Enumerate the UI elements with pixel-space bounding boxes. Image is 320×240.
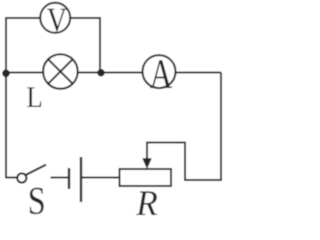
ammeter label A xyxy=(150,60,172,88)
wire: bottom right horizontal xyxy=(184,179,222,181)
rheostat wiper shaft xyxy=(146,142,148,162)
wire: switch fixed contact to battery xyxy=(51,177,69,179)
voltmeter label V xyxy=(47,9,67,32)
lamp L circle xyxy=(43,54,78,89)
junction node left xyxy=(2,70,10,78)
battery positive long plate xyxy=(80,157,82,202)
rheostat R body xyxy=(120,169,172,186)
wire: step vertical xyxy=(184,143,186,182)
switch label S xyxy=(30,188,44,215)
lamp X diagonal 1 xyxy=(48,59,72,83)
lamp label L xyxy=(27,87,41,107)
voltmeter U-V circle xyxy=(40,3,70,33)
switch S blade xyxy=(26,165,46,175)
rheostat wiper arrowhead xyxy=(142,158,151,169)
rheostat label R xyxy=(136,191,157,215)
battery negative short plate xyxy=(68,168,70,189)
wire: left vertical xyxy=(5,18,7,179)
wire: main horizontal xyxy=(6,72,221,74)
wire: battery to rheostat xyxy=(82,177,120,179)
wire: step horizontal to wiper xyxy=(147,142,186,144)
lamp X diagonal 2 xyxy=(48,59,72,83)
wire: top horizontal of voltmeter loop xyxy=(5,17,101,19)
switch S pivot circle xyxy=(17,173,26,182)
ammeter U-A circle xyxy=(143,55,176,88)
wire: bottom left to switch xyxy=(6,177,18,179)
wire: voltmeter loop right vertical xyxy=(99,18,101,73)
junction node right xyxy=(97,69,104,76)
wire: right vertical xyxy=(220,73,222,182)
